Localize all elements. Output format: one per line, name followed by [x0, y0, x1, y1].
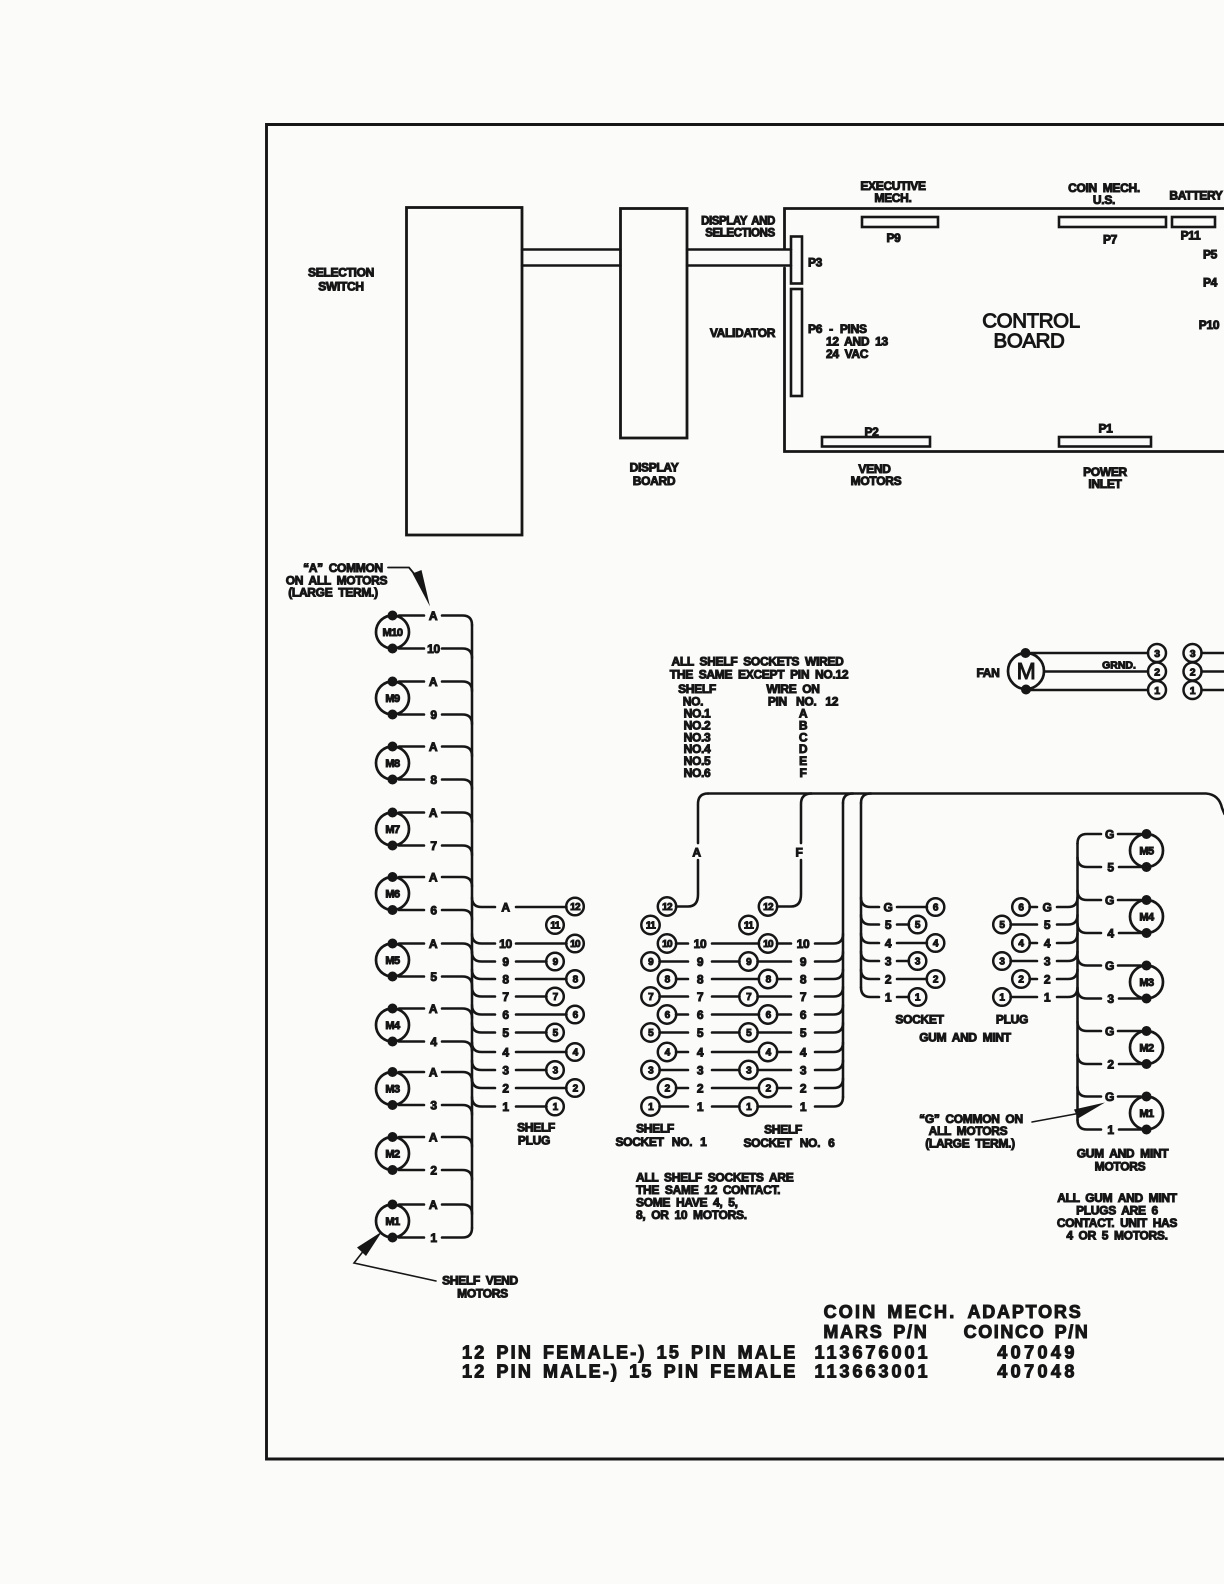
- svg-text:6: 6: [665, 1010, 671, 1021]
- svg-text:6: 6: [933, 903, 939, 914]
- svg-text:11: 11: [744, 921, 754, 932]
- svg-text:GUM AND MINT: GUM AND MINT: [1077, 1147, 1170, 1161]
- svg-text:5: 5: [648, 1028, 654, 1039]
- svg-text:P5: P5: [1203, 248, 1218, 262]
- svg-text:MOTORS: MOTORS: [1095, 1160, 1146, 1174]
- svg-text:SOCKET: SOCKET: [895, 1013, 944, 1027]
- svg-text:P9: P9: [886, 231, 901, 245]
- svg-text:SOCKET NO. 6: SOCKET NO. 6: [743, 1136, 835, 1150]
- svg-text:MOTORS: MOTORS: [457, 1287, 508, 1301]
- svg-text:24 VAC: 24 VAC: [826, 347, 869, 361]
- svg-text:4 OR 5 MOTORS.: 4 OR 5 MOTORS.: [1066, 1229, 1167, 1243]
- svg-text:BATTERY: BATTERY: [1169, 189, 1223, 203]
- svg-text:P2: P2: [864, 425, 879, 439]
- svg-text:5: 5: [1107, 861, 1114, 875]
- svg-text:2: 2: [1018, 975, 1024, 986]
- svg-text:9: 9: [648, 957, 654, 968]
- svg-text:M2: M2: [1139, 1043, 1154, 1055]
- svg-text:PLUG: PLUG: [996, 1013, 1028, 1027]
- svg-text:12: 12: [662, 902, 673, 913]
- svg-text:3: 3: [648, 1066, 654, 1077]
- svg-text:A: A: [429, 871, 438, 885]
- svg-text:M4: M4: [385, 1020, 401, 1032]
- svg-text:(LARGE TERM.): (LARGE TERM.): [925, 1137, 1015, 1151]
- svg-text:M5: M5: [1139, 846, 1154, 858]
- svg-text:G: G: [883, 901, 892, 915]
- svg-text:SELECTION: SELECTION: [308, 266, 374, 280]
- svg-text:P11: P11: [1181, 229, 1201, 243]
- svg-text:3: 3: [502, 1064, 509, 1078]
- svg-text:7: 7: [430, 839, 437, 853]
- svg-text:A: A: [429, 675, 438, 689]
- svg-text:M8: M8: [385, 758, 400, 770]
- svg-text:6: 6: [800, 1008, 807, 1022]
- svg-text:SHELF VEND: SHELF VEND: [442, 1274, 518, 1288]
- svg-text:M6: M6: [385, 889, 400, 901]
- svg-text:4: 4: [1044, 937, 1051, 951]
- svg-text:2: 2: [766, 1084, 772, 1095]
- svg-text:M4: M4: [1139, 912, 1155, 924]
- svg-text:BOARD: BOARD: [633, 474, 676, 488]
- svg-text:PLUG: PLUG: [518, 1134, 550, 1148]
- svg-text:G: G: [1105, 959, 1114, 973]
- svg-text:12: 12: [570, 902, 581, 913]
- svg-text:FAN: FAN: [976, 666, 999, 680]
- svg-text:2: 2: [573, 1084, 579, 1095]
- svg-text:A: A: [429, 1131, 438, 1145]
- svg-text:GUM AND MINT: GUM AND MINT: [919, 1031, 1012, 1045]
- svg-text:G: G: [1105, 1025, 1114, 1039]
- svg-text:A: A: [429, 937, 438, 951]
- svg-text:F: F: [795, 846, 802, 860]
- svg-text:SHELF: SHELF: [517, 1121, 555, 1135]
- svg-text:3: 3: [999, 957, 1005, 968]
- svg-text:10: 10: [763, 939, 774, 950]
- svg-text:10: 10: [797, 937, 810, 951]
- svg-text:7: 7: [502, 990, 509, 1004]
- svg-text:NO.6: NO.6: [684, 766, 711, 780]
- svg-text:8: 8: [502, 973, 509, 987]
- svg-text:5: 5: [999, 920, 1005, 931]
- svg-text:P10: P10: [1199, 318, 1220, 332]
- svg-text:(LARGE TERM.): (LARGE TERM.): [288, 586, 378, 600]
- svg-text:DISPLAY AND: DISPLAY AND: [701, 216, 775, 228]
- svg-text:11: 11: [550, 921, 560, 932]
- svg-text:7: 7: [553, 992, 559, 1003]
- svg-text:8: 8: [766, 975, 772, 986]
- svg-text:1: 1: [999, 993, 1005, 1004]
- svg-text:5: 5: [502, 1026, 509, 1040]
- svg-text:8: 8: [697, 973, 704, 987]
- svg-text:3: 3: [800, 1064, 807, 1078]
- svg-text:1: 1: [697, 1100, 704, 1114]
- svg-text:A: A: [429, 806, 438, 820]
- svg-text:3: 3: [885, 955, 892, 969]
- svg-text:M7: M7: [385, 824, 400, 836]
- svg-text:1: 1: [1107, 1123, 1114, 1137]
- svg-text:3: 3: [553, 1066, 559, 1077]
- svg-text:M5: M5: [385, 955, 400, 967]
- svg-text:8, OR 10 MOTORS.: 8, OR 10 MOTORS.: [636, 1208, 747, 1222]
- svg-text:COIN MECH.: COIN MECH.: [824, 1302, 957, 1322]
- svg-text:INLET: INLET: [1088, 477, 1122, 491]
- svg-text:12 PIN FEMALE-) 15 PIN MALE: 12 PIN FEMALE-) 15 PIN MALE: [462, 1343, 797, 1363]
- svg-text:10: 10: [662, 939, 673, 950]
- svg-text:4: 4: [766, 1048, 772, 1059]
- svg-text:5: 5: [915, 920, 921, 931]
- svg-text:7: 7: [648, 992, 654, 1003]
- svg-text:9: 9: [502, 955, 509, 969]
- svg-text:1: 1: [648, 1102, 654, 1113]
- svg-text:6: 6: [766, 1010, 772, 1021]
- svg-text:6: 6: [502, 1008, 509, 1022]
- svg-text:GRND.: GRND.: [1102, 660, 1136, 672]
- svg-text:P7: P7: [1103, 233, 1118, 247]
- svg-text:U.S.: U.S.: [1093, 193, 1115, 207]
- svg-text:12: 12: [763, 902, 774, 913]
- svg-text:4: 4: [573, 1048, 579, 1059]
- svg-text:A: A: [429, 609, 438, 623]
- svg-text:M10: M10: [383, 627, 403, 639]
- svg-text:A: A: [429, 1002, 438, 1016]
- svg-text:6: 6: [1018, 903, 1024, 914]
- svg-text:4: 4: [800, 1046, 807, 1060]
- svg-text:G: G: [1105, 894, 1114, 908]
- svg-text:9: 9: [430, 708, 437, 722]
- svg-text:G: G: [1105, 1090, 1114, 1104]
- svg-text:2: 2: [502, 1082, 509, 1096]
- svg-text:9: 9: [746, 957, 752, 968]
- svg-text:2: 2: [800, 1082, 807, 1096]
- svg-text:1: 1: [885, 991, 892, 1005]
- svg-text:407049: 407049: [997, 1343, 1077, 1363]
- svg-text:7: 7: [746, 992, 752, 1003]
- svg-text:2: 2: [885, 973, 892, 987]
- svg-text:2: 2: [1154, 667, 1160, 679]
- svg-text:COINCO P/N: COINCO P/N: [964, 1322, 1090, 1342]
- svg-text:3: 3: [1044, 955, 1051, 969]
- svg-text:A: A: [429, 740, 438, 754]
- svg-text:4: 4: [1018, 939, 1024, 950]
- svg-text:1: 1: [800, 1100, 807, 1114]
- svg-text:SHELF: SHELF: [636, 1122, 674, 1136]
- svg-text:A: A: [501, 901, 510, 915]
- svg-text:4: 4: [885, 937, 892, 951]
- svg-text:4: 4: [665, 1048, 671, 1059]
- svg-text:P3: P3: [808, 256, 823, 270]
- svg-text:9: 9: [800, 955, 807, 969]
- svg-text:SOCKET NO. 1: SOCKET NO. 1: [615, 1135, 707, 1149]
- svg-text:1: 1: [915, 993, 921, 1004]
- svg-text:3: 3: [746, 1066, 752, 1077]
- svg-text:2: 2: [430, 1164, 437, 1178]
- svg-text:3: 3: [1154, 648, 1160, 660]
- svg-text:11: 11: [646, 921, 656, 932]
- svg-text:3: 3: [1190, 648, 1196, 660]
- svg-text:1: 1: [1044, 991, 1051, 1005]
- svg-text:3: 3: [1107, 992, 1114, 1006]
- svg-text:12 PIN MALE-) 15 PIN FEMALE: 12 PIN MALE-) 15 PIN FEMALE: [462, 1362, 797, 1382]
- svg-text:A: A: [429, 1066, 438, 1080]
- svg-text:3: 3: [430, 1099, 437, 1113]
- svg-text:4: 4: [502, 1046, 509, 1060]
- svg-text:2: 2: [933, 975, 939, 986]
- svg-text:7: 7: [697, 990, 704, 1004]
- svg-text:10: 10: [694, 937, 707, 951]
- svg-text:DISPLAY: DISPLAY: [630, 461, 679, 475]
- svg-text:G: G: [1105, 828, 1114, 842]
- svg-text:3: 3: [697, 1064, 704, 1078]
- svg-text:1: 1: [430, 1231, 437, 1245]
- svg-text:MOTORS: MOTORS: [851, 474, 902, 488]
- svg-text:SELECTIONS: SELECTIONS: [705, 228, 775, 240]
- svg-text:5: 5: [746, 1028, 752, 1039]
- svg-text:A: A: [692, 846, 701, 860]
- svg-text:9: 9: [553, 957, 559, 968]
- svg-text:A: A: [429, 1198, 438, 1212]
- svg-text:2: 2: [1044, 973, 1051, 987]
- svg-text:THE SAME EXCEPT PIN NO.12: THE SAME EXCEPT PIN NO.12: [670, 668, 849, 682]
- svg-text:P1: P1: [1098, 422, 1113, 436]
- svg-text:3: 3: [915, 957, 921, 968]
- svg-text:8: 8: [665, 975, 671, 986]
- svg-text:1: 1: [502, 1100, 509, 1114]
- svg-text:1: 1: [1154, 685, 1160, 697]
- svg-text:6: 6: [573, 1010, 579, 1021]
- svg-text:10: 10: [499, 937, 512, 951]
- svg-text:2: 2: [697, 1082, 704, 1096]
- svg-text:ADAPTORS: ADAPTORS: [967, 1302, 1082, 1322]
- svg-text:MECH.: MECH.: [874, 191, 911, 205]
- svg-text:5: 5: [1044, 918, 1051, 932]
- svg-text:SWITCH: SWITCH: [318, 280, 364, 294]
- svg-text:5: 5: [697, 1026, 704, 1040]
- svg-text:4: 4: [430, 1035, 437, 1049]
- svg-text:7: 7: [800, 990, 807, 1004]
- svg-text:5: 5: [553, 1028, 559, 1039]
- svg-text:M1: M1: [1139, 1108, 1154, 1120]
- svg-text:2: 2: [1190, 667, 1196, 679]
- svg-text:2: 2: [665, 1084, 671, 1095]
- svg-text:SHELF: SHELF: [764, 1123, 802, 1137]
- svg-text:M9: M9: [385, 693, 400, 705]
- svg-text:F: F: [799, 766, 806, 780]
- svg-text:8: 8: [430, 773, 437, 787]
- svg-text:9: 9: [697, 955, 704, 969]
- svg-text:6: 6: [430, 904, 437, 918]
- svg-text:4: 4: [1107, 927, 1114, 941]
- svg-text:M3: M3: [385, 1084, 400, 1096]
- svg-text:BOARD: BOARD: [994, 330, 1065, 353]
- svg-text:6: 6: [697, 1008, 704, 1022]
- svg-text:2: 2: [1107, 1058, 1114, 1072]
- svg-text:1: 1: [746, 1102, 752, 1113]
- svg-text:113676001: 113676001: [814, 1343, 930, 1363]
- svg-text:M1: M1: [385, 1216, 400, 1228]
- svg-text:10: 10: [427, 642, 440, 656]
- svg-text:P4: P4: [1203, 276, 1218, 290]
- svg-text:M: M: [1017, 658, 1036, 684]
- svg-text:8: 8: [573, 975, 579, 986]
- svg-text:113663001: 113663001: [814, 1362, 930, 1382]
- svg-text:407048: 407048: [997, 1362, 1077, 1382]
- svg-text:10: 10: [570, 939, 581, 950]
- svg-text:1: 1: [1190, 685, 1196, 697]
- svg-text:5: 5: [430, 970, 437, 984]
- svg-text:M2: M2: [385, 1149, 400, 1161]
- svg-text:M3: M3: [1139, 977, 1154, 989]
- svg-text:8: 8: [800, 973, 807, 987]
- svg-text:VALIDATOR: VALIDATOR: [710, 326, 776, 340]
- svg-text:1: 1: [553, 1102, 559, 1113]
- svg-text:G: G: [1042, 901, 1051, 915]
- svg-text:5: 5: [800, 1026, 807, 1040]
- svg-text:ALL SHELF SOCKETS WIRED: ALL SHELF SOCKETS WIRED: [672, 655, 845, 669]
- svg-text:4: 4: [933, 939, 939, 950]
- svg-text:5: 5: [885, 918, 892, 932]
- svg-text:4: 4: [697, 1046, 704, 1060]
- svg-text:MARS P/N: MARS P/N: [823, 1322, 928, 1342]
